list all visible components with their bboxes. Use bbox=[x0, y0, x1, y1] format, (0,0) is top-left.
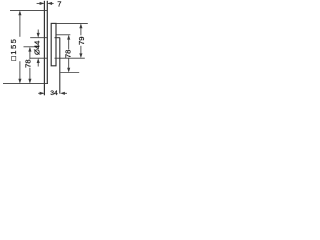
dim 44 upper arrow (down) bbox=[37, 33, 40, 38]
plate front face line bbox=[46, 1, 48, 84]
dim 44 lower arrow (up) bbox=[37, 58, 40, 63]
dim 78 right line bbox=[68, 36, 70, 49]
svg-text:7: 7 bbox=[57, 0, 61, 8]
dim 34 right arrow (points left) bbox=[60, 92, 65, 95]
dim 78 left bottom arrow bbox=[28, 79, 31, 84]
dim 78 right bottom arrow bbox=[67, 68, 70, 73]
dim 78 left top arrow bbox=[28, 47, 31, 52]
plate top edge + left extension line bbox=[10, 9, 47, 11]
dim 44 lower stub bbox=[37, 63, 39, 67]
dim 155 top arrow bbox=[18, 10, 21, 15]
dim 155 bottom arrow bbox=[18, 79, 21, 84]
sleeve top extension line to right bbox=[56, 22, 88, 24]
svg-text:□155: □155 bbox=[9, 38, 18, 61]
dim 7 left tail bbox=[37, 2, 44, 4]
dim 78 right top arrow bbox=[67, 35, 70, 40]
dim 7 right tail bbox=[48, 2, 53, 4]
dim 79 top arrow bbox=[79, 23, 82, 28]
dim 34 left tail bbox=[38, 92, 43, 94]
dim 44 upper stub bbox=[37, 30, 39, 34]
svg-text:34: 34 bbox=[50, 90, 58, 97]
dim 34 left arrow (points right) bbox=[40, 92, 45, 95]
sleeve outline bbox=[51, 23, 56, 65]
svg-text:79: 79 bbox=[77, 37, 86, 45]
svg-text:78: 78 bbox=[23, 59, 32, 67]
plate bottom edge + left extension line bbox=[3, 83, 48, 85]
dim 79 bottom arrow bbox=[79, 53, 82, 58]
knob axis extension line bbox=[24, 46, 40, 48]
svg-text:Ø44: Ø44 bbox=[33, 41, 42, 55]
dim 7 right arrow (points left) bbox=[47, 2, 52, 5]
plate back face line bbox=[43, 1, 45, 96]
knob top edge + diameter extension line bbox=[30, 37, 47, 39]
dim 34 right tail bbox=[64, 92, 67, 94]
dim 155 line bbox=[19, 12, 21, 37]
78R bottom reference line bbox=[60, 72, 79, 74]
dim 78 left line bbox=[29, 48, 31, 59]
knob bottom edge + extension lines both sides bbox=[30, 57, 47, 59]
78R top reference line bbox=[56, 34, 70, 36]
knob face line + extension to 34 dim bbox=[59, 38, 61, 94]
dim 79 line bbox=[80, 25, 82, 35]
svg-text:78: 78 bbox=[63, 50, 72, 58]
dim 7 left arrow (points right) bbox=[40, 2, 45, 5]
